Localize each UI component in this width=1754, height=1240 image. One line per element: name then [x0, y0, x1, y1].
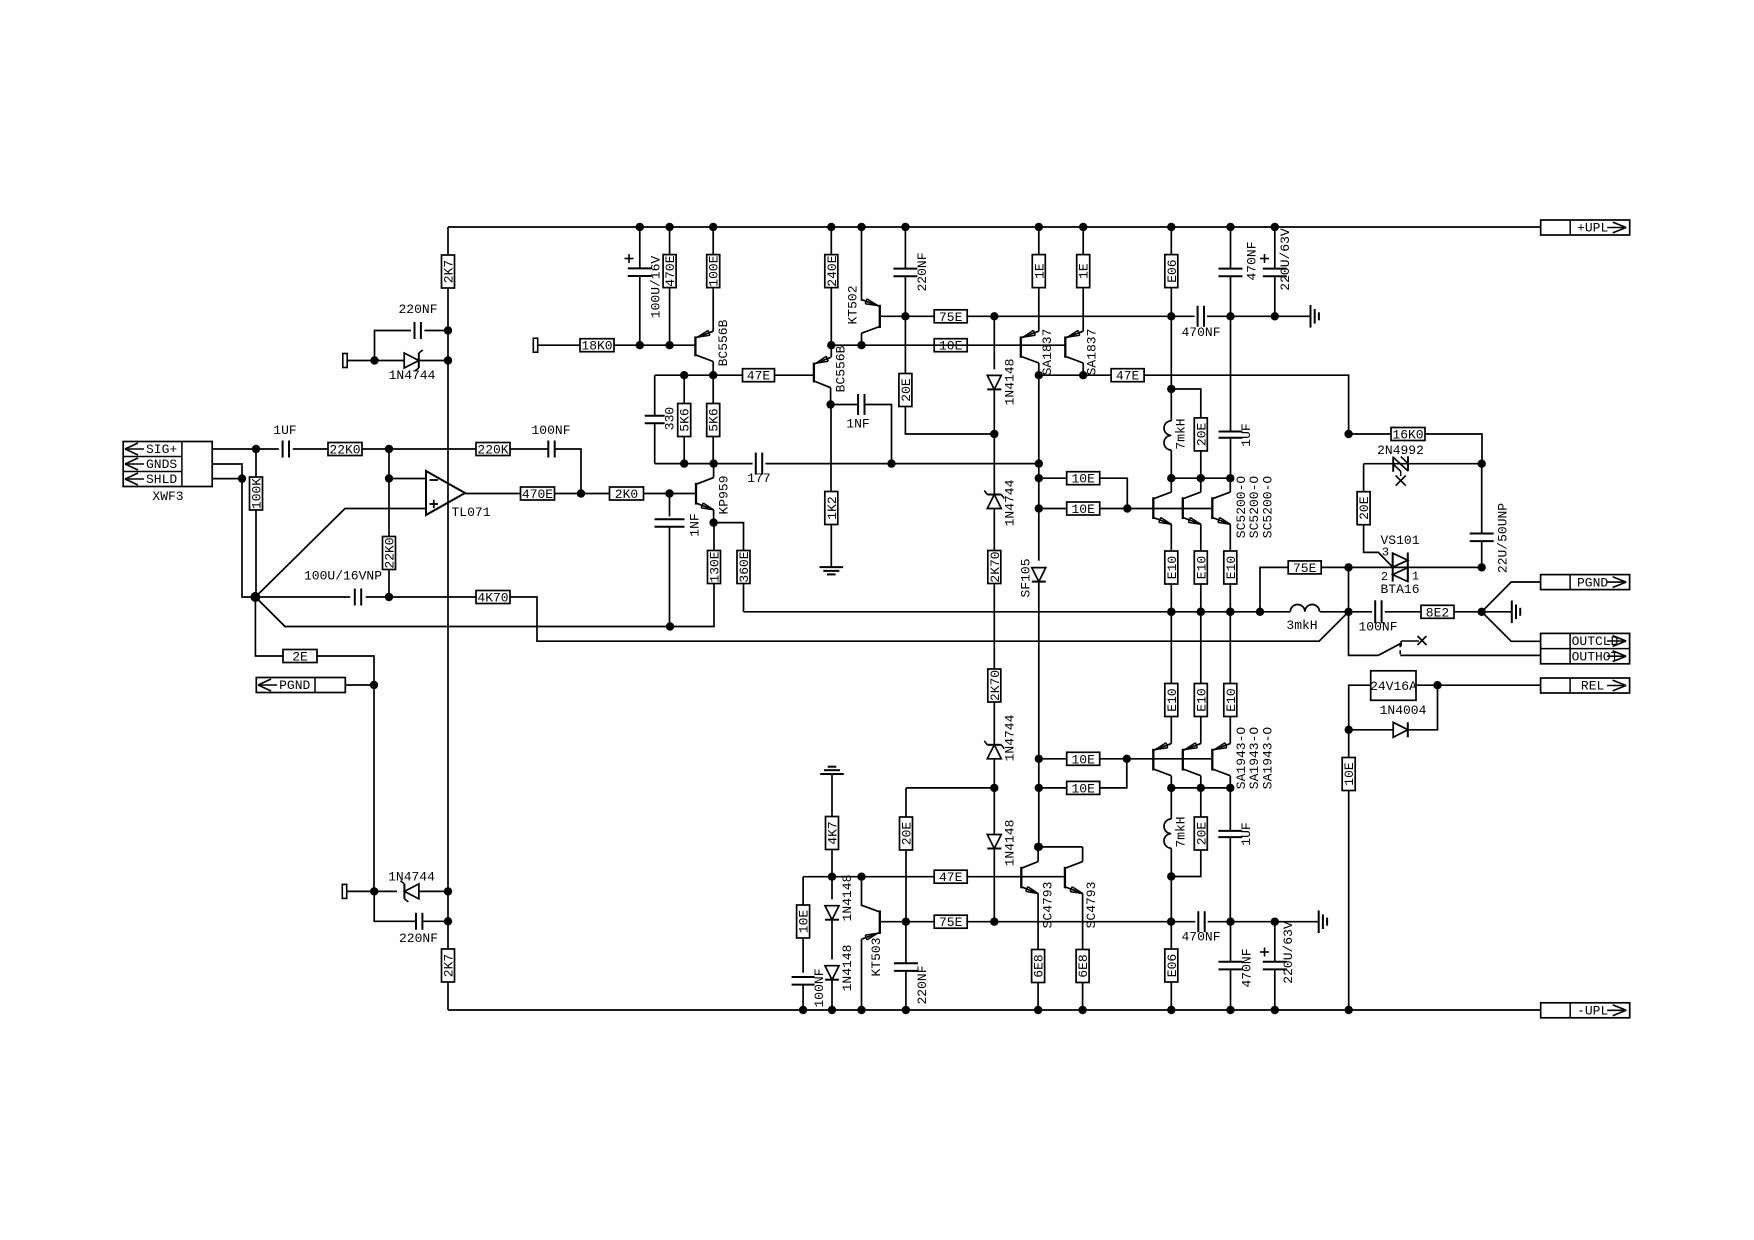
- label SA1943-O: [1260, 727, 1275, 790]
- transistor SA1943 1: [1153, 743, 1171, 776]
- label 470NF: [1181, 325, 1220, 340]
- wire SHLD: [212, 478, 242, 480]
- resistor 2K0: [610, 487, 644, 502]
- node junction: [1034, 843, 1042, 851]
- label 177: [747, 471, 770, 486]
- wire to KP959 base: [644, 493, 697, 495]
- node junction: [1478, 460, 1486, 468]
- transistor BC556B first: [695, 330, 713, 361]
- wire collector: [1082, 847, 1084, 862]
- svg-text:1N4148: 1N4148: [840, 945, 855, 992]
- triac VS101 BTA16: [1381, 546, 1419, 585]
- wire: [1171, 850, 1201, 877]
- wire: [831, 850, 833, 877]
- wire collector: [1037, 847, 1039, 862]
- label 1N4148: [840, 875, 855, 922]
- wire: [1482, 612, 1541, 642]
- wire: [683, 375, 685, 403]
- svg-text:10E: 10E: [797, 910, 812, 934]
- svg-text:PGND: PGND: [1577, 575, 1608, 590]
- wire GNDS: [212, 464, 242, 479]
- wire: [803, 876, 934, 878]
- wire +UPL rail: [448, 226, 1541, 228]
- label SA1837: [1040, 329, 1055, 376]
- svg-text:1N4148: 1N4148: [1002, 820, 1017, 867]
- svg-text:1UF: 1UF: [1239, 822, 1254, 845]
- wire: [1200, 584, 1202, 612]
- svg-text:20E: 20E: [1357, 496, 1372, 520]
- resistor 5K6 first: [678, 404, 693, 437]
- wire KP959 emitter: [713, 510, 715, 523]
- node junction: [385, 474, 393, 482]
- svg-text:SA1837: SA1837: [1040, 329, 1055, 376]
- wire: [683, 437, 685, 464]
- label 100NF: [812, 968, 827, 1007]
- label 470NF: [1245, 241, 1260, 280]
- op-amp U1 TL071: [426, 471, 491, 520]
- wire: [1349, 685, 1371, 730]
- label 7mkH: [1174, 418, 1189, 449]
- svg-text:100U/16V: 100U/16V: [649, 256, 664, 319]
- node junction: [1078, 1006, 1086, 1014]
- node junction: [1345, 726, 1353, 734]
- wire: [555, 449, 581, 494]
- node junction: [1344, 608, 1352, 616]
- resistor 20E vas low: [900, 817, 915, 850]
- wire: [993, 316, 995, 369]
- label 1N4148: [840, 945, 855, 992]
- svg-text:470E: 470E: [663, 255, 678, 286]
- transistor SA1837 2: [1065, 330, 1083, 363]
- wire KT502 emitter: [861, 227, 863, 301]
- svg-text:220NF: 220NF: [399, 931, 438, 946]
- label SC4793: [1040, 882, 1055, 929]
- wire OUTHOT: [1400, 654, 1540, 656]
- wire: [1170, 227, 1172, 255]
- wire: [1320, 611, 1372, 613]
- svg-text:6E8: 6E8: [1076, 954, 1091, 977]
- wire: [317, 656, 374, 685]
- wire collector: [1170, 478, 1172, 492]
- wire: [1100, 759, 1127, 788]
- wire: [1348, 730, 1350, 758]
- wire: [831, 774, 833, 817]
- svg-text:E10: E10: [1194, 556, 1209, 579]
- svg-text:BC556B: BC556B: [834, 345, 849, 392]
- svg-text:1N4744: 1N4744: [1002, 714, 1017, 761]
- label 2N4992: [1377, 443, 1424, 458]
- pin stub lower left: [342, 884, 346, 898]
- capacitor 177: [756, 453, 762, 475]
- svg-text:470NF: 470NF: [1181, 930, 1220, 945]
- ground below 1K2: [820, 567, 844, 574]
- wire inverting input: [389, 478, 426, 480]
- svg-text:47E: 47E: [747, 369, 771, 384]
- wire: [1230, 438, 1232, 479]
- node junction: [709, 223, 717, 231]
- node junction: [1197, 608, 1205, 616]
- wire 1E emitter: [1038, 227, 1040, 255]
- wire: [669, 288, 671, 346]
- wire: [1229, 837, 1231, 922]
- wire: [538, 344, 580, 346]
- node junction: [709, 518, 717, 526]
- svg-text:4K70: 4K70: [477, 591, 508, 606]
- wire: [1170, 316, 1172, 421]
- node junction: [1344, 563, 1352, 571]
- wire: [1425, 434, 1482, 464]
- wire: [1321, 566, 1482, 568]
- resistor 1K2: [825, 492, 840, 525]
- wire: [1200, 788, 1202, 817]
- svg-text:10E: 10E: [1071, 472, 1095, 487]
- node junction: [709, 371, 717, 379]
- wire emitter: [1037, 894, 1039, 950]
- wire: [993, 389, 995, 434]
- capacitor 220U/63V lower: [1263, 962, 1287, 970]
- svg-text:22K0: 22K0: [329, 443, 360, 458]
- svg-text:1N4148: 1N4148: [840, 875, 855, 922]
- capacitor 1UF: [283, 441, 289, 458]
- wire left rail top: [447, 227, 449, 255]
- node junction: [1167, 223, 1175, 231]
- resistor 100K: [250, 477, 265, 510]
- node junction: [1079, 371, 1087, 379]
- node junction: [1035, 843, 1043, 851]
- node junction: [1345, 1006, 1353, 1014]
- node junction: [1197, 474, 1205, 482]
- label 470NF: [1181, 930, 1220, 945]
- wire left rail: [447, 288, 449, 949]
- wire REL: [1416, 684, 1541, 686]
- node junction: [1167, 872, 1175, 880]
- node junction: [827, 341, 835, 349]
- svg-text:100K: 100K: [250, 478, 265, 509]
- wire: [655, 463, 753, 465]
- label 100NF: [1358, 620, 1397, 635]
- wire: [892, 463, 1039, 465]
- wire: [1454, 611, 1482, 613]
- wire: [1038, 288, 1040, 332]
- resistor 8E2: [1421, 605, 1454, 620]
- label 100NF: [531, 423, 570, 438]
- node junction: [1226, 784, 1234, 792]
- svg-text:20E: 20E: [899, 378, 914, 402]
- node junction: [990, 784, 998, 792]
- node junction: [709, 459, 717, 467]
- wire BC556B collector: [712, 362, 714, 376]
- wire: [1208, 921, 1319, 923]
- transistor KP959: [696, 478, 714, 510]
- svg-text:1N4004: 1N4004: [1380, 703, 1427, 718]
- wire emitter: [1229, 716, 1231, 744]
- svg-text:2K70: 2K70: [988, 670, 1003, 701]
- svg-text:-UPL: -UPL: [1577, 1004, 1608, 1019]
- node junction: [666, 622, 674, 630]
- node junction: [990, 430, 998, 438]
- wire cap to rail: [424, 330, 448, 332]
- wire: [905, 922, 907, 963]
- wire 220NF branch: [375, 331, 412, 361]
- wire: [366, 596, 476, 598]
- svg-text:E10: E10: [1194, 688, 1209, 711]
- label 1NF: [846, 417, 869, 432]
- wire -UPL rail: [448, 1009, 1541, 1011]
- wire to output line: [743, 584, 745, 612]
- wire: [1038, 787, 1066, 789]
- node junction: [444, 917, 452, 925]
- svg-text:1E: 1E: [1032, 263, 1047, 279]
- svg-text:5K6: 5K6: [707, 408, 722, 431]
- svg-text:130E: 130E: [708, 551, 723, 582]
- wire: [1170, 848, 1172, 922]
- node junction: [1035, 474, 1043, 482]
- svg-text:470NF: 470NF: [1181, 325, 1220, 340]
- wire: [555, 493, 610, 495]
- wire left rail bottom: [447, 982, 449, 1010]
- wire: [1207, 315, 1311, 317]
- transistor SA1943 2: [1183, 743, 1201, 776]
- label SA1837: [1084, 329, 1099, 376]
- wire driver rail: [1039, 374, 1111, 376]
- wire: [1260, 567, 1288, 611]
- resistor E10 low 3: [1224, 684, 1239, 717]
- capacitor 100NF low: [792, 977, 815, 985]
- wire emitter: [1082, 894, 1084, 950]
- wire: [765, 463, 891, 465]
- wire: [1482, 611, 1512, 613]
- label BC556B: [716, 319, 731, 366]
- svg-text:1N4744: 1N4744: [389, 368, 436, 383]
- resistor 10E base d: [1067, 781, 1100, 796]
- resistor 10E base b: [1067, 502, 1100, 517]
- node junction: [1167, 918, 1175, 926]
- connector -UPL: [1541, 1003, 1630, 1019]
- transistor KT502: [862, 299, 880, 333]
- label 22U/50UNP: [1496, 503, 1511, 573]
- node junction: [1167, 474, 1175, 482]
- svg-text:75E: 75E: [939, 915, 963, 930]
- label 100U/16VNP: [304, 569, 382, 584]
- label 1N4744: [388, 870, 435, 885]
- svg-text:2K0: 2K0: [615, 487, 638, 502]
- svg-text:E06: E06: [1165, 259, 1180, 282]
- svg-text:2K7: 2K7: [442, 260, 457, 283]
- wire: [904, 276, 906, 373]
- node junction: [1478, 563, 1486, 571]
- wire: [1481, 541, 1483, 567]
- svg-text:1N4744: 1N4744: [388, 870, 435, 885]
- node junction: [636, 223, 644, 231]
- node junction: [1035, 459, 1043, 467]
- svg-text:5K6: 5K6: [678, 408, 693, 431]
- svg-text:1UF: 1UF: [1239, 423, 1254, 446]
- wire SA1837 collector: [1038, 363, 1040, 375]
- node junction: [1344, 430, 1352, 438]
- capacitor 330: [645, 416, 665, 424]
- svg-text:10E: 10E: [1071, 781, 1095, 796]
- node junction: [680, 459, 688, 467]
- transistor SA1837 1: [1021, 330, 1039, 363]
- wire: [831, 877, 833, 900]
- svg-text:1E: 1E: [1077, 263, 1092, 279]
- wire: [1038, 375, 1040, 561]
- svg-text:10E: 10E: [1071, 502, 1095, 517]
- node junction: [370, 681, 378, 689]
- wire: [905, 971, 907, 1010]
- node junction: [828, 873, 836, 881]
- resistor 100E: [707, 255, 722, 288]
- wire: [1200, 450, 1202, 478]
- wire: [831, 980, 833, 1010]
- resistor 2K70 upper: [988, 551, 1003, 584]
- wire collector: [1229, 478, 1231, 492]
- resistor 20E coil lower: [1194, 817, 1209, 850]
- node junction: [887, 459, 895, 467]
- svg-text:10E: 10E: [1342, 762, 1357, 786]
- wire: [1349, 433, 1391, 435]
- wire: [1349, 729, 1394, 731]
- wire collector rail: [1171, 477, 1230, 479]
- svg-text:7mkH: 7mkH: [1174, 816, 1189, 847]
- wire: [654, 375, 656, 415]
- resistor 6E8 2: [1076, 950, 1091, 983]
- svg-text:177: 177: [747, 471, 770, 486]
- wire: [639, 276, 641, 345]
- resistor 10E base a: [1067, 472, 1100, 487]
- svg-text:8E2: 8E2: [1426, 605, 1449, 620]
- diode 1N4148 upper: [987, 375, 1001, 389]
- wire inverting branch: [388, 449, 390, 537]
- label BC556B: [834, 345, 849, 392]
- node junction: [250, 592, 260, 602]
- node junction: [827, 223, 835, 231]
- resistor 4K70: [476, 591, 510, 606]
- svg-text:20E: 20E: [1194, 822, 1209, 846]
- resistor 1E 1: [1032, 255, 1047, 288]
- wire op-amp output: [465, 493, 521, 495]
- wire collector: [1170, 776, 1172, 788]
- resistor E06 lower: [1165, 949, 1180, 982]
- resistor 20E vas: [899, 374, 914, 407]
- wire emitter: [1200, 524, 1202, 551]
- wire: [1100, 478, 1128, 508]
- wire: [968, 315, 1195, 317]
- wire: [1170, 450, 1172, 478]
- wire collectors join: [1038, 846, 1083, 848]
- svg-text:SA1837: SA1837: [1084, 329, 1099, 376]
- label KT503: [869, 937, 884, 976]
- capacitor 22U/50UNP: [1470, 534, 1494, 542]
- label SA1943-O: [1234, 727, 1249, 790]
- wire collector: [1200, 776, 1202, 788]
- wire: [669, 494, 671, 517]
- wire: [388, 570, 390, 598]
- wire: [993, 702, 995, 745]
- resistor 2E: [283, 650, 317, 665]
- wire: [1038, 758, 1066, 760]
- resistor 4K7: [826, 817, 841, 850]
- diode 1N4148 b: [825, 966, 839, 980]
- svg-text:SC4793: SC4793: [1084, 882, 1099, 929]
- transistor KT503: [862, 905, 880, 940]
- wire SA1837 collector: [1082, 363, 1084, 375]
- resistor 47E driver: [1111, 369, 1144, 384]
- wire: [1082, 288, 1084, 332]
- node junction: [826, 400, 834, 408]
- node junction: [902, 918, 910, 926]
- label VS101: [1380, 533, 1419, 548]
- node junction: [1478, 608, 1486, 616]
- node junction: [252, 445, 260, 453]
- node junction: [665, 341, 673, 349]
- svg-text:100E: 100E: [707, 255, 722, 286]
- inductor 7mkH lower: [1164, 819, 1171, 848]
- wire: [1363, 464, 1365, 492]
- node junction: [1079, 223, 1087, 231]
- wire: [1274, 276, 1276, 316]
- wire: [1229, 584, 1231, 612]
- label 220NF: [915, 965, 930, 1004]
- svg-text:470E: 470E: [522, 487, 553, 502]
- wire: [614, 344, 695, 346]
- node junction: [1123, 755, 1131, 763]
- label 1UF: [1239, 822, 1254, 845]
- wire PGND down: [373, 685, 375, 891]
- label SC4793: [1084, 882, 1099, 929]
- svg-text:220NF: 220NF: [915, 252, 930, 291]
- label SF105: [1019, 558, 1034, 597]
- wire diac line: [1364, 463, 1482, 465]
- resistor 75E bias: [934, 310, 967, 325]
- resistor 470E bias: [663, 255, 678, 288]
- wire feedback run: [510, 597, 1349, 641]
- node junction: [1035, 784, 1043, 792]
- resistor E06 upper: [1165, 255, 1180, 288]
- connector REL: [1541, 678, 1630, 694]
- inductor 7mkH upper: [1164, 421, 1171, 450]
- node junction: [857, 341, 865, 349]
- transistor SC5200 3: [1212, 492, 1230, 524]
- label 1N4744: [389, 368, 436, 383]
- wire output line: [744, 611, 1291, 613]
- resistor 5K6 second: [707, 404, 722, 437]
- wire: [993, 509, 995, 551]
- node junction: [1167, 608, 1175, 616]
- diode 1N4744 zener lower: [984, 741, 1004, 759]
- diode 1N4744 upper: [404, 350, 423, 371]
- node junction: [370, 887, 378, 895]
- svg-text:1NF: 1NF: [846, 417, 869, 432]
- switch relay contact: [1378, 636, 1426, 655]
- wire collector: [1229, 776, 1231, 788]
- label 1N4004: [1380, 703, 1427, 718]
- wire 1E emitter: [1082, 227, 1084, 255]
- svg-text:GNDS: GNDS: [146, 457, 177, 472]
- node junction: [990, 918, 998, 926]
- wire: [345, 684, 374, 686]
- diode 1N4744 lower: [400, 881, 419, 902]
- node junction: [1226, 608, 1234, 616]
- svg-text:TL071: TL071: [451, 505, 490, 520]
- pin stub 18K0: [533, 338, 537, 352]
- label 220NF: [398, 302, 437, 317]
- relay coil 24V16A: [1370, 671, 1417, 701]
- resistor 20E coil upper: [1194, 418, 1209, 451]
- connector PGND out: [1541, 575, 1630, 591]
- ground output: [1512, 601, 1520, 624]
- svg-text:BTA16: BTA16: [1380, 582, 1419, 597]
